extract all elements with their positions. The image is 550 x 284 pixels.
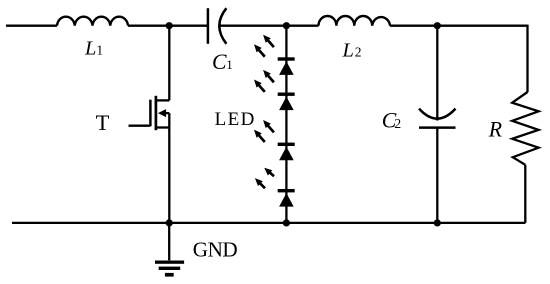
LED D4 emission arrow lower — [259, 183, 265, 189]
ground bar 1 — [155, 261, 184, 264]
node: C2 bottom junction — [434, 219, 441, 226]
LED D3 cathode bar — [278, 143, 295, 146]
svg-text:R: R — [488, 118, 502, 142]
svg-text:LED: LED — [215, 109, 256, 130]
LED D2 triangle — [279, 97, 294, 111]
wire: bottom ground bus — [12, 222, 525, 224]
svg-text:L: L — [342, 39, 354, 61]
transistor T channel bar — [155, 96, 158, 130]
node: L2/C2 junction — [434, 22, 441, 29]
LED D4 emission arrow upper — [269, 172, 274, 176]
wire: resistor bottom lead — [524, 165, 526, 223]
resistor R zigzag — [512, 92, 538, 165]
LED D2 cathode bar — [278, 93, 295, 96]
LED D4 triangle — [279, 193, 294, 207]
svg-text:2: 2 — [355, 44, 362, 59]
inductor L2 — [319, 16, 391, 26]
wire: MOSFET drain vertical from top node — [168, 26, 170, 101]
LED D4 cathode bar — [278, 189, 295, 192]
LED D1 cathode bar — [278, 57, 295, 60]
wire: MOSFET source vertical to bottom bus — [168, 113, 170, 223]
capacitor C1 curved plate — [219, 8, 226, 44]
node: source/GND junction — [166, 219, 173, 226]
capacitor C2 straight plate — [419, 126, 456, 129]
capacitor C1 straight plate — [207, 8, 210, 44]
wire: top input lead into L1 — [6, 25, 57, 27]
LED D3 triangle — [279, 147, 294, 161]
svg-text:T: T — [96, 110, 110, 135]
wire: C2 top lead — [436, 26, 438, 121]
node: C1/LED/L2 junction — [283, 22, 290, 29]
wire: C1 to LED node — [220, 25, 287, 27]
capacitor C2 curved plate — [419, 109, 456, 119]
wire: L1 to C1 left plate (through node) — [128, 25, 208, 27]
LED D3 emission arrow upper — [267, 125, 274, 133]
ground bar 3 — [165, 273, 174, 277]
svg-text:L: L — [84, 37, 96, 59]
svg-text:2: 2 — [394, 116, 401, 131]
LED D3 emission arrow lower — [258, 134, 265, 142]
wire: GND stem below bus — [168, 223, 170, 260]
wire: LED string vertical — [285, 26, 287, 223]
transistor T drain horizontal — [155, 99, 170, 101]
svg-text:1: 1 — [226, 57, 233, 72]
LED D1 emission arrow lower — [258, 49, 265, 57]
svg-text:GND: GND — [193, 238, 238, 262]
svg-text:C: C — [212, 50, 227, 74]
transistor T source horizontal — [156, 126, 169, 128]
transistor T gate bar — [149, 100, 152, 127]
LED D2 emission arrow upper — [267, 75, 274, 83]
wire: L2 to C2 node and right corner — [390, 25, 528, 27]
transistor T body arrow head — [158, 109, 166, 117]
wire: C2 bottom lead — [436, 128, 438, 223]
transistor T body arrow shaft — [165, 112, 170, 114]
ground bar 2 — [159, 267, 181, 270]
node: L1/C1/drain junction — [166, 22, 173, 29]
LED D2 emission arrow lower — [258, 84, 265, 92]
wire: LED node to L2 — [286, 25, 318, 27]
LED D1 triangle — [279, 61, 294, 75]
LED D1 emission arrow upper — [267, 40, 274, 48]
svg-text:1: 1 — [96, 42, 103, 57]
inductor L1 — [57, 17, 128, 26]
node: LED bottom junction — [283, 219, 290, 226]
transistor T gate lead — [129, 125, 151, 127]
wire: right vertical down to resistor — [526, 25, 528, 93]
